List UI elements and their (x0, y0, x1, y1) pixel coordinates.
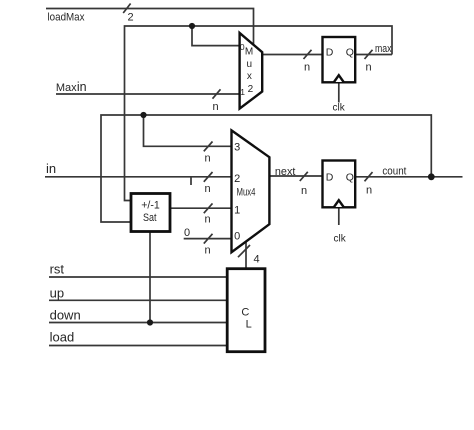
svg-text:Sat: Sat (143, 212, 157, 224)
wire down (49, 322, 227, 324)
wire tick on in (190, 177, 192, 185)
wire count feedback (101, 115, 431, 222)
wire load (49, 345, 227, 347)
wire constant 0 (184, 238, 232, 240)
svg-text:1: 1 (240, 87, 245, 97)
flip-flop U2 (count register) (323, 161, 356, 208)
svg-text:Mux4: Mux4 (237, 186, 256, 198)
svg-text:2: 2 (128, 11, 134, 23)
box CL (227, 269, 265, 352)
wire next (269, 175, 322, 177)
svg-text:n: n (366, 185, 372, 197)
slash mux4 in0 n (204, 234, 213, 244)
junction node mux2 in0 (189, 23, 195, 29)
svg-text:n: n (213, 101, 219, 113)
svg-text:clk: clk (333, 103, 346, 114)
flip-flop U1 (max register) (323, 37, 356, 82)
svg-text:2: 2 (248, 84, 254, 95)
wire sat output (170, 207, 232, 209)
junction node count output (428, 173, 435, 180)
svg-text:4: 4 (254, 254, 260, 266)
svg-text:n: n (301, 185, 307, 197)
slash loadMax 2 (123, 4, 130, 14)
slash mux2out n (304, 50, 312, 59)
svg-text:n: n (205, 152, 211, 164)
svg-text:Q: Q (346, 171, 354, 183)
wire CL select (245, 242, 247, 269)
wire mux2 output (262, 54, 322, 56)
svg-text:n: n (304, 62, 310, 74)
svg-text:n: n (205, 183, 211, 195)
svg-text:n: n (205, 214, 211, 226)
slash count n (365, 172, 373, 181)
svg-text:M: M (245, 47, 253, 58)
wire clk1 (338, 82, 340, 102)
svg-text:0: 0 (184, 227, 190, 239)
svg-text:load: load (50, 330, 75, 345)
wire count (355, 176, 463, 178)
slash Maxin n (213, 89, 221, 98)
svg-text:0: 0 (234, 231, 240, 243)
svg-text:3: 3 (234, 142, 240, 154)
box +/-1 Sat (131, 194, 170, 232)
svg-text:n: n (366, 62, 372, 74)
slash mux4 in1 n (204, 203, 213, 213)
mux M u x 2 (240, 33, 263, 109)
wire sat to down (149, 232, 151, 323)
wire mux4 input 3 branch (144, 115, 232, 146)
wire loadMax (46, 9, 254, 45)
svg-text:D: D (326, 171, 334, 183)
svg-text:down: down (50, 308, 81, 323)
svg-text:2: 2 (234, 173, 240, 185)
svg-text:D: D (326, 47, 334, 59)
clk notch U2 (334, 200, 344, 207)
slash mux4 in2 n (204, 172, 213, 182)
slash next n (300, 172, 308, 181)
slash max n (365, 50, 373, 59)
svg-text:rst: rst (50, 261, 65, 276)
wire clk2 (338, 207, 340, 225)
wire in (45, 176, 232, 178)
wire max feedback (125, 26, 393, 201)
slash mux4 in3 n (204, 142, 213, 152)
svg-text:+/-1: +/-1 (141, 200, 160, 212)
svg-text:n: n (205, 244, 211, 256)
mux Mux4 (232, 130, 270, 252)
svg-text:up: up (50, 286, 64, 301)
svg-text:Q: Q (346, 47, 354, 59)
svg-text:1: 1 (234, 204, 240, 216)
svg-text:loadMax: loadMax (48, 11, 85, 23)
slash select 4 (238, 245, 250, 257)
wire rst (49, 276, 227, 278)
svg-text:count: count (382, 165, 406, 177)
svg-text:C: C (241, 307, 249, 319)
svg-text:in: in (46, 161, 56, 176)
junction node down to sat (147, 319, 153, 325)
wire Maxin (56, 93, 240, 95)
svg-text:u: u (247, 59, 253, 70)
junction node count feedback to mux4 (140, 112, 146, 118)
svg-text:next: next (275, 166, 296, 178)
svg-text:L: L (246, 318, 252, 330)
svg-text:clk: clk (334, 234, 347, 245)
svg-text:Maxin: Maxin (56, 80, 87, 94)
wire up (49, 299, 227, 301)
svg-text:max: max (375, 43, 392, 55)
svg-text:x: x (247, 71, 252, 82)
clk notch U1 (334, 75, 344, 82)
wire max output (355, 54, 392, 56)
wire mux2 input 0 branch (192, 26, 240, 46)
